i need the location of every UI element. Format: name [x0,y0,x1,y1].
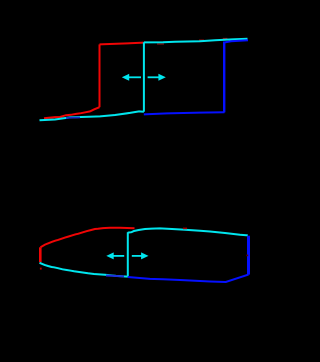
top panel: cyan upper branch [144,39,248,43]
bottom panel: dark red tick on blue right edge [246,255,248,257]
bottom panel: cyan upper-right arc [128,228,248,235]
top panel: blue vertical jump at x=224.5 [223,42,225,113]
bottom panel: dark red speck above cyan arc [183,228,187,230]
top panel: blue lower branch [144,112,225,114]
top panel: blue upper tip [224,40,248,42]
bottom panel: blue lower-right arc [128,275,249,282]
top panel: red upper branch to centre junction [100,43,144,45]
bottom panel: cyan lower-left arc [40,263,128,277]
top panel: dark red fragment above cyan upper branch [199,40,204,42]
bottom panel: small red dash below red vertical [40,268,42,270]
bottom panel: cyan arrow pointing left [106,252,124,259]
top panel: medium-blue overlap on lower branch [66,116,80,119]
top panel: red loop branch (left-shifted), lower sweep [44,107,100,118]
top panel: cyan lower branch [40,111,144,120]
bottom panel: red left vertical edge at x=40.3 [39,247,42,262]
top panel: cyan arrow pointing right [148,74,166,81]
top panel: cyan vertical jump at x=143.9 [143,42,145,111]
bottom panel: cyan vertical jump at x=127.8 [127,232,129,276]
bottom panel: medium-blue overlap segment on lower arc [106,275,124,278]
top panel: dark red fragment above cyan upper branch right [223,38,228,40]
top panel: cyan arrow pointing left [122,74,141,81]
bottom panel: blue right vertical edge at x=248.5 [247,236,250,275]
top panel: red vertical jump at x=99.5 [99,44,101,107]
top panel: dark red fragment below cyan at x~160 [157,43,164,44]
bottom panel: cyan arrow pointing right [132,252,149,259]
bottom panel: red upper-left arc [41,228,135,247]
